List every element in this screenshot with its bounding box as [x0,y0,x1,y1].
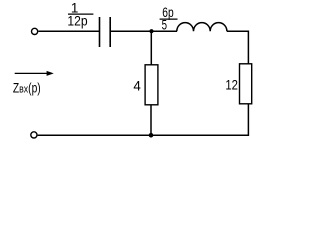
wire top terminal to capacitor [38,30,99,32]
wire capacitor to node A [111,30,152,32]
svg-text:12p: 12p [67,14,87,29]
node A junction dot top [149,29,153,33]
wire node A down to resistor R1 [150,31,152,65]
resistor R2 body [240,64,252,104]
terminal top-left input port [31,28,37,34]
wire bottom node B to terminal [38,134,151,136]
capacitor C1 [100,17,111,47]
svg-text:5: 5 [162,18,167,33]
wire node A to inductor [152,30,178,32]
resistor R1 body [145,65,158,105]
wire resistor R1 to bottom node B [150,105,152,135]
wire resistor R2 to bottom-right corner [151,104,248,135]
svg-text:4: 4 [133,79,141,94]
terminal bottom-left input port [31,132,37,138]
inductor L1 [177,23,227,32]
svg-text:12: 12 [225,78,238,93]
svg-text:Zвх(p): Zвх(p) [13,80,41,95]
node B junction dot bottom [149,133,154,138]
wire inductor to top-right corner [227,31,249,64]
inductor L1 value 6p/5 [160,5,178,33]
arrow for input impedance direction [15,71,54,76]
capacitor C1 value 1/12p [67,1,93,29]
